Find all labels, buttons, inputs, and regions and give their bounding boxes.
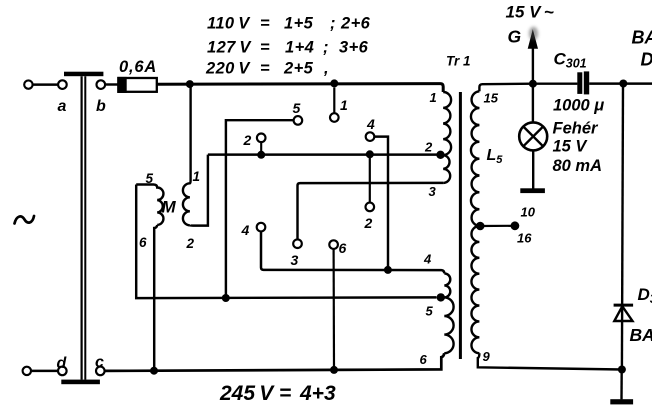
secondary winding lower (471, 226, 479, 353)
wire socket 5 down to tap5 line (226, 120, 294, 297)
wire M5 to primary tap 5 (136, 185, 436, 299)
transformer core (459, 92, 462, 359)
socket 6 (329, 240, 338, 249)
wire lamp to ground (532, 150, 534, 188)
svg-text:b: b (96, 98, 106, 115)
svg-text:1: 1 (430, 90, 437, 105)
terminal d (58, 367, 67, 376)
svg-text:220 V=2+5,: 220 V=2+5, (205, 60, 329, 78)
primary lower winding 4-5 (444, 273, 450, 297)
junction above socket 2 right (366, 150, 374, 158)
svg-text:6: 6 (139, 235, 147, 250)
junction right rail top (619, 80, 627, 88)
svg-text:d: d (57, 355, 68, 372)
svg-text:5: 5 (426, 304, 434, 319)
secondary bottom lead 9 (478, 353, 622, 369)
socket 4 right (366, 132, 375, 141)
wire rail to ground (620, 370, 623, 400)
svg-text:Fehér: Fehér (553, 120, 600, 138)
G arrowhead smudge (529, 27, 538, 41)
M winding left coil (5-6) (136, 185, 163, 225)
junction under socket 2 (257, 151, 265, 159)
svg-text:127 V=1+4;3+6: 127 V=1+4;3+6 (207, 39, 369, 57)
primary upper winding 2-3 (443, 155, 450, 183)
svg-text:9: 9 (483, 349, 491, 364)
socket 5 (294, 116, 303, 125)
G arrowhead (528, 29, 538, 49)
svg-text:4: 4 (423, 252, 432, 267)
pin circle bottom-left (23, 367, 31, 375)
junction bottom wire / M terminal 6 (150, 367, 158, 375)
wire to pin a (33, 83, 59, 85)
stub socket2-left (260, 142, 262, 155)
junction top wire / M winding (186, 80, 194, 88)
svg-text:Tr 1: Tr 1 (446, 54, 471, 69)
junction right rail bottom (618, 366, 626, 374)
secondary winding upper (471, 91, 479, 226)
svg-text:4: 4 (241, 222, 250, 238)
svg-text:1: 1 (193, 169, 201, 184)
wire socket 1 to top wire (333, 88, 335, 114)
lamp X stroke 1 (523, 127, 543, 147)
svg-text:80 mA: 80 mA (553, 157, 603, 175)
svg-text:16: 16 (517, 231, 532, 246)
bottom wire c to primary terminal 6 (105, 353, 445, 371)
terminal b (97, 80, 106, 89)
diode D3 cathode bar (614, 304, 634, 307)
mains plug bottom bar (61, 380, 100, 385)
svg-text:BA: BA (632, 28, 652, 48)
svg-text:c: c (95, 354, 104, 371)
plug blade line right (84, 76, 86, 379)
fuse black end cap (117, 77, 126, 93)
junction selector5 wire (222, 294, 230, 302)
ground bar bottom right (610, 399, 633, 404)
svg-text:BA: BA (630, 325, 652, 345)
M left coil bottom lead to bottom wire (154, 225, 157, 370)
lamp X stroke 2 (523, 127, 543, 147)
svg-text:2: 2 (424, 140, 433, 155)
svg-text:2: 2 (186, 236, 195, 251)
svg-text:2: 2 (243, 132, 252, 148)
svg-text:4: 4 (366, 116, 375, 132)
mains plug top bar (64, 72, 103, 77)
junction top wire / selector 1 (330, 79, 338, 87)
svg-text:5: 5 (293, 100, 301, 116)
secondary tap dots and stub (480, 225, 515, 227)
svg-text:15 V ~: 15 V ~ (506, 3, 554, 22)
svg-text:G: G (508, 27, 522, 47)
wire b to fuse (105, 83, 118, 85)
right rail wire (622, 84, 623, 370)
wire to pin d (31, 370, 58, 372)
AC mains tilde symbol (15, 216, 35, 224)
wire socket 4L + tap4 line to primary terminal 4 (261, 231, 444, 273)
terminal c (96, 367, 105, 376)
wire junction to socket 2 right (369, 154, 371, 202)
svg-text:1000 μ: 1000 μ (553, 97, 604, 115)
svg-text:6: 6 (420, 352, 428, 367)
wire socket 3 to primary terminal 3 (298, 183, 444, 239)
lamp circle (519, 122, 547, 150)
junction bottom wire / selector 6 (330, 366, 338, 374)
svg-text:0,6A: 0,6A (119, 58, 157, 76)
svg-text:10: 10 (521, 205, 536, 220)
secondary top lead (479, 84, 533, 92)
capacitor C301 plate 2 (584, 71, 589, 94)
socket 1 (330, 113, 339, 122)
wire right rail to edge (623, 82, 652, 84)
fuse Bi 0,6A body (118, 78, 156, 92)
svg-text:3: 3 (291, 252, 299, 268)
primary tap 2 dot (436, 151, 444, 159)
junction tap4 line (384, 266, 392, 274)
wire socket 4R down to tap4 line (374, 137, 388, 270)
capacitor C301 plate 1 (577, 72, 582, 94)
socket 3 (293, 239, 302, 248)
svg-text:1: 1 (340, 97, 348, 113)
plug blade line left (80, 76, 82, 379)
svg-text:2: 2 (364, 215, 373, 231)
wire socket 6 to bottom wire (333, 249, 336, 369)
svg-text:15: 15 (484, 91, 499, 106)
svg-text:6: 6 (339, 240, 347, 256)
svg-text:3: 3 (429, 184, 437, 199)
svg-text:a: a (58, 98, 67, 115)
ground bar under lamp (520, 188, 545, 193)
terminal a (58, 80, 67, 89)
svg-text:15 V: 15 V (553, 138, 589, 156)
svg-text:M: M (162, 198, 177, 217)
secondary tap stub end dot (511, 221, 520, 230)
primary tap 5 dot (437, 293, 445, 301)
pin circle top-left (24, 80, 32, 88)
primary upper winding 1-2 (443, 92, 451, 155)
wire junction to lamp (532, 84, 534, 123)
wire junction to C301 (536, 82, 577, 84)
svg-text:5: 5 (146, 171, 154, 186)
M winding right coil (1-2) (183, 84, 191, 225)
wire selector line 2 to primary tap 2 (208, 153, 437, 155)
junction secondary / G / lamp (529, 80, 537, 88)
socket 2 left (257, 134, 266, 143)
M right coil bottom lead up to selector line (190, 155, 208, 226)
socket 2 right (366, 203, 375, 212)
primary lower winding 5-6 (444, 297, 453, 353)
svg-text:110 V=1+5;2+6: 110 V=1+5;2+6 (207, 15, 371, 33)
diode D3 triangle (614, 306, 632, 321)
main top wire to primary terminal 1 (157, 84, 443, 92)
G arrow shaft (532, 48, 534, 84)
secondary tap dot on coil (476, 222, 485, 231)
svg-text:D: D (641, 50, 652, 70)
wire C301 to right rail (589, 82, 623, 84)
socket 4 left (257, 223, 266, 232)
